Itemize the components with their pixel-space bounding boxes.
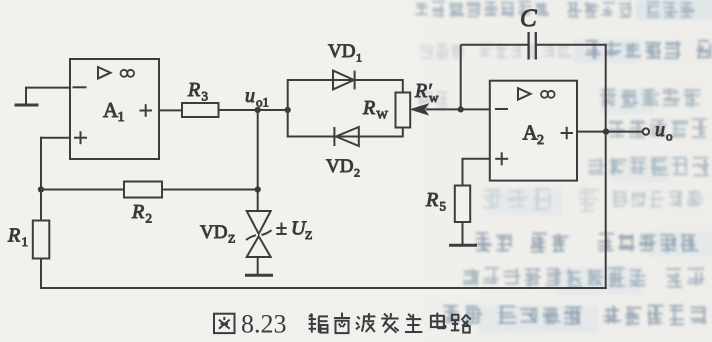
svg-text:R: R bbox=[362, 97, 375, 119]
svg-text:C: C bbox=[520, 5, 537, 32]
node uo1 bbox=[245, 85, 269, 113]
svg-text:o: o bbox=[666, 129, 673, 144]
svg-text:R: R bbox=[131, 201, 144, 223]
svg-text:w: w bbox=[429, 90, 439, 105]
wire A1 noninverting input bbox=[41, 137, 70, 190]
node D junction bbox=[603, 128, 609, 134]
svg-text:1: 1 bbox=[22, 234, 29, 249]
wire A1 inverting input bbox=[26, 87, 70, 105]
zener diode VDZ bbox=[200, 190, 272, 276]
svg-text:5: 5 bbox=[440, 199, 447, 214]
op-amp U1 (A1) bbox=[70, 59, 159, 159]
svg-text:R: R bbox=[425, 189, 438, 211]
resistor R1 bbox=[7, 190, 49, 290]
wire uo1 to VDZ bbox=[257, 110, 259, 190]
wire feedback right bbox=[605, 45, 607, 289]
resistor R3 bbox=[159, 79, 289, 117]
svg-text:1: 1 bbox=[356, 51, 362, 65]
svg-text:2: 2 bbox=[146, 211, 153, 226]
svg-text:±: ± bbox=[276, 218, 287, 240]
ground below R5 bbox=[449, 244, 477, 247]
svg-text:Z: Z bbox=[228, 232, 235, 246]
svg-text:VD: VD bbox=[328, 41, 355, 62]
svg-text:u: u bbox=[245, 85, 255, 107]
svg-text:1: 1 bbox=[118, 110, 125, 125]
terminal uo bbox=[643, 119, 673, 144]
svg-text:3: 3 bbox=[202, 89, 209, 104]
resistor R2 bbox=[41, 182, 258, 226]
svg-text:Z: Z bbox=[305, 228, 312, 242]
svg-text:R: R bbox=[187, 79, 200, 101]
diode VD2 bbox=[287, 127, 403, 180]
svg-text:2: 2 bbox=[537, 133, 544, 148]
caption 图 8.23 锯齿波发生电路 bbox=[214, 309, 471, 338]
resistor R5 bbox=[425, 186, 470, 246]
svg-text:u: u bbox=[655, 119, 665, 141]
label ±UZ bbox=[276, 218, 312, 243]
svg-text:VD: VD bbox=[200, 222, 227, 243]
node B junction bbox=[255, 186, 261, 192]
svg-text:2: 2 bbox=[354, 166, 360, 180]
wiper arrow bbox=[411, 80, 461, 115]
wire bottom rail bbox=[40, 287, 607, 289]
ground below VDZ bbox=[245, 274, 273, 277]
wire A2 noninverting input bbox=[463, 158, 490, 186]
wire feedback left bbox=[460, 45, 462, 110]
ground bbox=[15, 104, 39, 107]
potentiometer RW bbox=[362, 79, 410, 138]
wire A2 output bbox=[577, 131, 643, 133]
op-amp U2 (A2) bbox=[490, 81, 577, 181]
node A junction bbox=[38, 186, 44, 192]
svg-text:R: R bbox=[7, 225, 20, 247]
node C junction bbox=[458, 106, 490, 112]
svg-text:o1: o1 bbox=[256, 95, 269, 110]
diode VD1 bbox=[287, 41, 403, 89]
node diode branch junction bbox=[285, 80, 291, 137]
capacitor C bbox=[461, 5, 607, 60]
svg-text:W: W bbox=[377, 108, 389, 122]
svg-text:VD: VD bbox=[326, 156, 353, 177]
svg-text:8.23: 8.23 bbox=[241, 309, 287, 338]
